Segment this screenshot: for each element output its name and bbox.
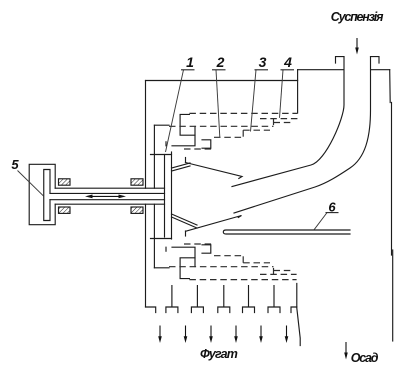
fugat arrow 4 bbox=[235, 326, 237, 338]
dashed L4 top bbox=[243, 129, 270, 131]
discharge pipe 6 bbox=[223, 230, 350, 234]
leader 6 bbox=[314, 213, 327, 230]
bottom bracket stub bbox=[165, 247, 167, 251]
dashed vstep top bbox=[273, 119, 275, 127]
svg-text:Суспензія: Суспензія bbox=[331, 10, 384, 24]
top solid stair (part 1) bbox=[180, 114, 195, 135]
bottom-left corner foot bbox=[146, 307, 156, 313]
dashed L7 bottom bbox=[184, 243, 212, 245]
casing left wall upper bbox=[145, 81, 147, 189]
dashed L3 top bbox=[169, 125, 274, 127]
bearing block lower-left bbox=[59, 207, 71, 213]
outlet stem 3 bbox=[218, 286, 230, 313]
bottom-right corner foot bbox=[291, 307, 297, 313]
casing left wall lower bbox=[145, 204, 147, 307]
shaft housing top bbox=[55, 187, 164, 189]
leader lines bbox=[18, 70, 339, 230]
bearing block lower-right bbox=[131, 207, 143, 213]
feed pipe right wall bbox=[234, 57, 371, 213]
cone upper edge (line A) bbox=[186, 163, 243, 179]
dashed L4 bottom bbox=[243, 262, 270, 264]
dashed L2b bottom bbox=[274, 270, 293, 272]
right ledge beyond pipe bbox=[371, 69, 390, 71]
shaft bottom line bbox=[50, 199, 165, 201]
leader 2 bar bbox=[212, 69, 226, 71]
bearing block upper-left bbox=[59, 179, 71, 185]
inner ledge bottom bbox=[154, 267, 169, 269]
suspension feed arrow bbox=[356, 38, 358, 48]
outlet stem 2 bbox=[191, 286, 203, 313]
right outer wall seg1 bbox=[389, 70, 392, 103]
svg-text:Осад: Осад bbox=[351, 351, 379, 365]
svg-text:6: 6 bbox=[328, 200, 336, 215]
right outer wall seg2 bbox=[391, 103, 393, 256]
casing right wall bbox=[297, 70, 299, 113]
dashed L2 bottom bbox=[260, 273, 297, 275]
leader 2 bbox=[216, 70, 220, 137]
shaft housing bottom bbox=[55, 203, 164, 205]
dashed L7 top bbox=[184, 148, 212, 150]
dashed L5 bottom bbox=[214, 255, 243, 257]
shaft top line bbox=[50, 192, 165, 194]
leader 1 bbox=[166, 70, 184, 152]
casing top line bbox=[146, 80, 298, 82]
leader 3 bbox=[251, 70, 257, 132]
svg-text:5: 5 bbox=[11, 157, 19, 172]
top bracket stub bbox=[165, 142, 167, 146]
leader 5 bbox=[18, 171, 44, 197]
yoke housing (part 5) bbox=[29, 164, 55, 224]
leader 1 bar bbox=[181, 69, 195, 71]
yoke slot bbox=[44, 170, 50, 221]
cone upper strut a bbox=[172, 163, 191, 168]
feed pipe left flange bbox=[336, 57, 345, 63]
dashed vstep bottom bbox=[273, 267, 275, 275]
arrows bbox=[85, 38, 359, 360]
osad arrow bbox=[345, 342, 347, 353]
leader 3 bar bbox=[255, 69, 269, 71]
leader 6 bar bbox=[326, 212, 339, 214]
hub bottom cap bbox=[151, 238, 172, 240]
cone lower strut a bbox=[172, 214, 198, 225]
feed pipe left wall bbox=[232, 57, 344, 187]
dashed L1 top bbox=[189, 112, 297, 114]
small box top (part 3 edge) bbox=[202, 140, 211, 148]
fugat arrow 2 bbox=[185, 326, 187, 338]
cone upper strut b bbox=[172, 166, 191, 171]
svg-text:2: 2 bbox=[216, 54, 225, 70]
dashed L2b top bbox=[274, 122, 293, 124]
dashed L3 bottom bbox=[169, 266, 274, 268]
casing top-right ledge bbox=[298, 69, 344, 71]
dashed L1 bottom bbox=[189, 279, 296, 281]
fugat arrow 6 bbox=[286, 326, 288, 338]
bottom bracket bbox=[172, 247, 195, 266]
shaft double arrow bbox=[89, 195, 122, 197]
inner wall upper bbox=[153, 125, 155, 188]
hub top cap bbox=[151, 154, 172, 156]
dashed L2 top bbox=[260, 118, 298, 120]
cone lower edge (line C1) bbox=[186, 216, 242, 232]
small box bottom bbox=[202, 245, 211, 253]
dashed L5 top bbox=[214, 136, 243, 138]
svg-text:4: 4 bbox=[283, 54, 292, 70]
top bracket (part 2 solid) bbox=[172, 127, 195, 146]
hidden (dashed) internals bbox=[169, 113, 298, 279]
bearing block upper-right bbox=[131, 179, 143, 185]
bowl hub right line bbox=[171, 152, 173, 239]
fugat arrow 5 bbox=[260, 326, 262, 338]
outlet stem 5 bbox=[268, 286, 280, 313]
cone upper tick bbox=[185, 158, 187, 163]
bottom-right wall bbox=[297, 284, 300, 346]
dashed vstep2 bottom bbox=[242, 256, 244, 263]
bowl hub left line bbox=[164, 155, 166, 238]
fugat arrow 1 bbox=[159, 326, 161, 338]
leader 4 bar bbox=[281, 69, 295, 71]
svg-text:Фугат: Фугат bbox=[200, 347, 238, 361]
leader 4 bbox=[280, 70, 284, 118]
dashed vstep2 top bbox=[242, 130, 244, 137]
svg-text:1: 1 bbox=[186, 54, 194, 70]
svg-text:3: 3 bbox=[259, 54, 267, 70]
cone lower tick bbox=[185, 231, 187, 236]
inner ledge top bbox=[154, 124, 169, 126]
outlet stem 4 bbox=[243, 286, 255, 313]
inner wall lower bbox=[153, 204, 155, 268]
right outer wall seg3 bbox=[392, 250, 394, 341]
feed pipe right flange bbox=[371, 57, 380, 63]
cone lower strut b bbox=[172, 217, 198, 228]
fugat arrow 3 bbox=[210, 326, 212, 338]
bottom solid stair bbox=[180, 258, 195, 279]
outlet stem 1 bbox=[166, 286, 178, 313]
